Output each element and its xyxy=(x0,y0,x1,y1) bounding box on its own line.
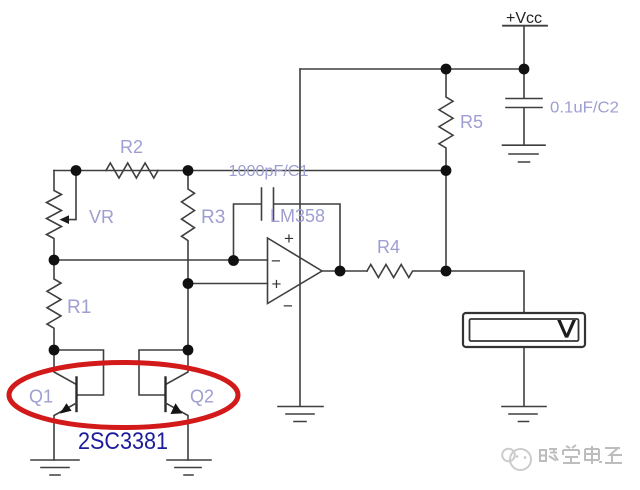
wire top rail xyxy=(300,68,524,70)
resistor R5 xyxy=(439,69,453,171)
ground (under meter) xyxy=(502,407,546,422)
watermark glyph 1 xyxy=(540,449,558,461)
VR wiper arrowhead xyxy=(60,215,70,224)
wire op-amp output xyxy=(322,270,367,272)
wire meter to ground xyxy=(523,347,525,406)
power +Vcc symbol xyxy=(503,25,547,27)
wire V+ / V- power line through op-amp xyxy=(299,69,301,406)
svg-text:−: − xyxy=(271,252,281,271)
svg-text:+Vcc: +Vcc xyxy=(506,10,542,27)
wire +Vcc lead xyxy=(523,27,525,69)
resistor R3 xyxy=(182,171,195,351)
watermark glyph 3 xyxy=(585,446,602,464)
node top rail / C2 xyxy=(519,64,530,75)
transistor Q2 emitter arrow xyxy=(171,403,183,414)
wire rail y=170 (R2 / C1 / R5 row) xyxy=(54,170,446,172)
transistor Q1 base bar xyxy=(75,378,77,412)
wire R5-bottom to output node xyxy=(445,171,447,271)
ground (under Q1) xyxy=(31,460,79,475)
resistor R4 xyxy=(367,265,446,278)
wire inverting-input rail xyxy=(54,259,268,261)
svg-text:R4: R4 xyxy=(377,237,400,257)
node op-amp output xyxy=(335,266,346,277)
svg-text:+: + xyxy=(272,275,282,294)
node non-inv tap xyxy=(183,278,194,289)
watermark glyph 4 xyxy=(605,448,622,463)
svg-text:−: − xyxy=(283,297,293,316)
ground (under C2) xyxy=(503,145,546,162)
svg-text:1000pF/C1: 1000pF/C1 xyxy=(229,163,309,180)
node Q2 top xyxy=(183,345,194,356)
resistor R2 xyxy=(106,163,158,178)
svg-text:R1: R1 xyxy=(67,297,91,318)
node R5 bottom xyxy=(441,165,452,176)
node: junction dots xyxy=(49,64,530,356)
wire non-inverting-input rail xyxy=(188,283,268,285)
svg-text:0.1uF/C2: 0.1uF/C2 xyxy=(550,100,619,117)
transistor Q2 base bracket wire xyxy=(139,350,188,395)
ground (under Q2) xyxy=(167,460,211,475)
svg-text:VR: VR xyxy=(89,207,114,227)
watermark glyph 2 xyxy=(563,445,580,463)
svg-text:Q1: Q1 xyxy=(29,387,53,407)
wire output node to meter xyxy=(446,271,524,313)
transistor Q2 emitter wire xyxy=(166,403,189,460)
variable resistor VR body xyxy=(47,171,62,261)
svg-text:Q2: Q2 xyxy=(190,387,214,407)
op-amp pin polarity marks xyxy=(271,229,294,316)
voltmeter V body xyxy=(463,313,585,347)
svg-text:R5: R5 xyxy=(460,112,483,132)
resistor R1 xyxy=(47,260,61,350)
annotation red ellipse xyxy=(9,363,238,428)
svg-text:LM358: LM358 xyxy=(270,206,325,226)
capacitor C2 xyxy=(506,69,542,145)
transistor Q1 emitter arrow xyxy=(60,403,72,413)
svg-text:R2: R2 xyxy=(120,137,143,157)
svg-text:2SC3381: 2SC3381 xyxy=(78,428,168,455)
transistor Q2 collector wire xyxy=(166,350,189,385)
svg-text:+: + xyxy=(284,229,294,248)
ground (op-amp V-) xyxy=(278,407,323,422)
transistor Q1 emitter wire xyxy=(54,403,77,460)
node A (VR/R2/wiper) xyxy=(71,165,82,176)
capacitor C1 feedback xyxy=(234,188,341,271)
transistor Q2 base bar xyxy=(164,378,166,412)
op-amp U1 LM358 triangle xyxy=(268,238,323,304)
component value labels xyxy=(29,100,619,407)
node Q1 top xyxy=(49,345,60,356)
watermark text 畅学电子 (drawn strokes) xyxy=(540,445,622,464)
node top rail / R5 xyxy=(441,64,452,75)
transistor Q1 base bracket wire xyxy=(54,350,104,395)
node inv input left xyxy=(49,255,60,266)
transistor Q1 collector wire xyxy=(54,350,77,385)
VR wiper arm xyxy=(68,171,76,220)
voltmeter V letter xyxy=(557,320,576,338)
svg-text:R3: R3 xyxy=(201,207,225,228)
node B (R2/R3 rail) xyxy=(183,165,194,176)
node R4 right xyxy=(441,266,452,277)
watermark logo xyxy=(502,449,531,470)
node C1 tap xyxy=(228,255,239,266)
